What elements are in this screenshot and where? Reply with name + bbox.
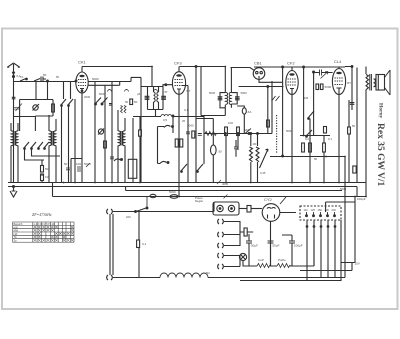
svg-text:RT: RT — [187, 89, 191, 93]
wire IFT1 left rail link — [141, 87, 148, 183]
wire x345 vertical — [344, 157, 346, 278]
wire y190 stub — [126, 187, 342, 191]
svg-text:0,2: 0,2 — [305, 137, 309, 141]
svg-text:50: 50 — [56, 75, 60, 79]
trimmer arrow C12 — [321, 72, 329, 79]
wire drop x95 — [94, 81, 96, 182]
svg-text:100μF: 100μF — [357, 197, 366, 201]
svg-text:Horny: Horny — [378, 103, 384, 119]
tube V1 CK1 — [76, 72, 88, 93]
extra value labels — [20, 75, 356, 275]
wire R6 down — [237, 136, 239, 151]
svg-text:5000: 5000 — [325, 85, 332, 89]
oscillator coil L3 pair — [118, 131, 125, 146]
wire x272 up — [271, 81, 273, 134]
svg-text:100μF: 100μF — [294, 244, 303, 248]
wire selector feed — [326, 202, 355, 212]
wire drop x75 mid — [74, 99, 76, 182]
wire CY2 to connector — [280, 212, 296, 214]
capacitor C17 — [198, 134, 202, 136]
wire tube1 cathode down — [81, 93, 83, 182]
wire x313.6 vertical — [313, 72, 315, 135]
node dots det — [257, 133, 259, 135]
wire grid step line — [131, 77, 141, 86]
mains contact bottom left — [107, 275, 113, 280]
wire 15V link — [300, 263, 352, 282]
shield box oscillator — [128, 159, 137, 178]
wire branch down x36 — [35, 81, 37, 100]
wire drop x70.5 — [70, 81, 72, 99]
wire E1 leads — [212, 119, 214, 183]
wire drop x188 — [182, 86, 188, 183]
switch S11 — [197, 164, 203, 172]
trimmer T1 — [14, 104, 22, 112]
svg-text:240: 240 — [332, 208, 337, 212]
ground symbol — [10, 187, 17, 197]
svg-text:Regler: Regler — [195, 199, 203, 203]
small box E10 — [324, 127, 327, 134]
choke L4 — [160, 273, 208, 278]
node out — [351, 66, 353, 68]
wire x310 vertical — [309, 119, 311, 183]
svg-text:0,1: 0,1 — [328, 137, 332, 141]
svg-text:50: 50 — [134, 100, 138, 104]
svg-text:110: 110 — [304, 208, 309, 212]
wire IFT2 secondary stem — [230, 68, 232, 93]
IF transformer IFT2 right rail — [231, 93, 237, 104]
wire bottom line2 — [240, 280, 341, 282]
svg-text:CL4: CL4 — [334, 59, 342, 64]
resistor R2 — [104, 141, 107, 148]
loudspeaker LS1 — [374, 70, 391, 95]
component oval on bus — [170, 195, 178, 199]
osc zigzag R17 — [121, 106, 127, 113]
wire tube2 anode up — [178, 67, 180, 72]
svg-text:50: 50 — [219, 150, 223, 154]
node dot on bus — [47, 80, 49, 82]
wire top bus drop x152 — [151, 67, 153, 87]
switch S1 on signal bus — [20, 78, 27, 81]
node tube2 grid — [165, 84, 167, 86]
box E6 — [130, 99, 133, 105]
svg-text:CF2: CF2 — [287, 61, 295, 66]
svg-text:100: 100 — [228, 121, 233, 125]
wire top bus segment1 — [82, 66, 152, 68]
tube V5 CL4 — [332, 69, 345, 95]
svg-text:4000: 4000 — [222, 182, 229, 186]
resistor R12 — [247, 206, 251, 213]
switch arrow S18 — [101, 98, 107, 105]
node diode line — [267, 86, 269, 88]
wire top bus segment2 — [179, 66, 224, 68]
wire CB1 left lead — [231, 68, 255, 71]
wire tube5 anode — [338, 67, 340, 69]
variable capacitor VC1 — [33, 104, 40, 111]
svg-text:125: 125 — [311, 208, 316, 212]
svg-text:50μF: 50μF — [273, 244, 280, 248]
switch S7 — [68, 99, 73, 182]
node dots ground bus — [63, 66, 367, 198]
wire x303.6 vertical — [303, 67, 305, 135]
wire E2 — [237, 106, 244, 134]
wave switch S9 — [160, 161, 169, 163]
svg-text:5000: 5000 — [169, 190, 176, 194]
wire x349 vertical — [348, 100, 350, 182]
output transformer primary zigzag — [366, 75, 369, 90]
resistor box E8 — [192, 131, 195, 138]
svg-text:5000: 5000 — [99, 92, 106, 96]
svg-text:5000: 5000 — [241, 91, 248, 95]
wire output transformer top — [345, 67, 366, 75]
wire link coils bottom — [25, 149, 61, 161]
coil L2 pair — [49, 131, 56, 146]
svg-text:5Ω: 5Ω — [206, 271, 210, 275]
svg-text:1W: 1W — [45, 175, 50, 179]
wire IFT2 leads down — [225, 104, 231, 116]
svg-text:15V: 15V — [355, 262, 360, 266]
svg-text:0,1: 0,1 — [184, 108, 188, 112]
svg-text:1 2 3 4 5 6 7 8 9 10: 1 2 3 4 5 6 7 8 9 10 — [34, 223, 55, 226]
wire R5 down — [225, 136, 227, 183]
svg-text:25: 25 — [182, 119, 186, 123]
node CL4 grid line — [313, 71, 315, 73]
wire y118.5 stub — [196, 118, 213, 120]
svg-text:1M: 1M — [304, 96, 309, 100]
svg-text:220: 220 — [126, 215, 131, 219]
svg-text:PuRo: PuRo — [278, 258, 286, 262]
wire tube2 cathode down — [178, 95, 180, 197]
wire x357 stub — [356, 187, 358, 197]
switch at CY2 — [280, 197, 286, 204]
switch S15 — [306, 130, 312, 137]
wire af line y135 — [300, 135, 330, 137]
wire mains line — [113, 211, 214, 213]
resistor R5 — [225, 127, 228, 136]
wire right side vertical — [350, 197, 355, 263]
oval component E1 — [211, 145, 217, 155]
svg-text:1M: 1M — [253, 142, 258, 146]
wire bottom mains line — [113, 277, 160, 279]
wire switch to bus link — [146, 197, 148, 209]
wire link S8 S9 — [158, 127, 165, 164]
svg-text:2M: 2M — [245, 128, 250, 132]
padder circle P1 — [98, 129, 104, 135]
svg-text:5000: 5000 — [84, 162, 91, 166]
svg-text:0,1: 0,1 — [142, 242, 147, 246]
volume pot RZ2 — [256, 147, 268, 168]
wire RZ1 leads — [250, 134, 252, 183]
switch S14 — [308, 111, 314, 119]
wire R13 — [240, 231, 253, 233]
pilot lamp LP1 — [239, 253, 246, 260]
oval on bus E9 — [150, 194, 156, 197]
capacitor C15 elec — [268, 241, 274, 266]
svg-text:5T: 5T — [165, 90, 169, 94]
component box E3 — [353, 166, 356, 173]
wire af line y156 — [270, 156, 345, 158]
switch S10 — [181, 164, 187, 172]
svg-text:RT: RT — [347, 81, 351, 85]
wire tube2 grid lead — [163, 85, 173, 87]
wire resistor to CY2 — [251, 208, 262, 210]
capacitor C9 — [234, 140, 238, 157]
wire branch down x47.5 — [47, 81, 49, 100]
wire coil L3 leads — [118, 110, 125, 182]
wire drop x105 — [104, 86, 106, 183]
svg-text:Rex 35 GW V/1: Rex 35 GW V/1 — [375, 123, 385, 186]
output transformer secondary — [374, 79, 376, 87]
output transformer core — [370, 74, 372, 91]
capacitor C8 — [186, 132, 190, 134]
wire top bus to speaker — [345, 67, 357, 183]
antenna A1 — [7, 63, 20, 78]
svg-text:50: 50 — [125, 100, 129, 104]
switch bank S3 — [31, 142, 36, 149]
svg-text:50: 50 — [45, 167, 49, 171]
tube V2 CF3 — [172, 72, 185, 95]
wire after choke — [208, 277, 345, 279]
wire x140 vertical — [139, 116, 141, 182]
capacitor blob antenna — [12, 97, 16, 99]
small box E5 — [320, 84, 323, 90]
svg-text:CuP: CuP — [258, 258, 264, 262]
wire tube1 cathode branch — [71, 159, 82, 183]
capacitor IFT2 right blob — [235, 97, 240, 100]
switch S12 — [245, 129, 251, 135]
wire coil L2 leads — [49, 115, 56, 182]
wire x267.8 vertical — [267, 87, 269, 134]
wire IFT2 primary stem — [224, 67, 226, 93]
wires from connector pins down — [307, 220, 341, 281]
wire tube1 anode up — [81, 67, 83, 73]
svg-text:0,5: 0,5 — [163, 118, 168, 122]
svg-text:ZA: ZA — [248, 110, 252, 114]
wire CB1 bottom lead — [259, 79, 283, 82]
wire x282.6 vertical — [282, 67, 284, 156]
capacitor blob x352 — [350, 103, 355, 105]
node top x196 — [195, 66, 197, 68]
connector pin dots — [306, 226, 308, 228]
wire fuse to resistor — [239, 208, 247, 210]
capacitor C13 on switch drop — [137, 212, 140, 278]
switch S6 — [61, 99, 66, 182]
resistor zigzag det — [205, 132, 216, 136]
svg-text:5000: 5000 — [209, 91, 216, 95]
hf choke L5 — [161, 114, 172, 116]
wire R15 link — [41, 160, 43, 182]
resistor R16 — [41, 174, 44, 181]
capacitor IFT1 right blob — [161, 96, 166, 99]
mains switch S16 — [135, 207, 148, 212]
svg-text:5000: 5000 — [286, 129, 293, 133]
svg-text:ZF=473kHz: ZF=473kHz — [32, 212, 52, 217]
svg-text:50: 50 — [314, 157, 318, 161]
capacitor C12 — [314, 70, 333, 76]
tube V6 CY2 — [262, 204, 280, 222]
switch bank S4 — [38, 142, 43, 149]
oval component E2 — [242, 108, 246, 114]
wire drop x133 — [132, 118, 134, 182]
capacitor C6 — [110, 157, 114, 159]
wire up from choke end — [213, 202, 215, 212]
contact pair A — [108, 90, 112, 92]
capacitor IFT2 left blob — [218, 97, 223, 100]
svg-text:TA: TA — [20, 75, 24, 79]
wire grid bus right of tube1 — [88, 81, 131, 83]
wire drop x196 — [195, 67, 197, 183]
switch bank S2 — [24, 142, 29, 149]
capacitor C14 elec — [246, 234, 252, 266]
wire drop x63.5 — [63, 81, 65, 99]
svg-text:CF3: CF3 — [174, 61, 182, 66]
resistor R6 — [237, 127, 240, 136]
node bus x303.6 — [303, 66, 305, 68]
svg-text:50: 50 — [352, 124, 356, 128]
wire IFT1 bottom stem — [155, 110, 157, 117]
wire RZ2 leads — [257, 134, 259, 183]
wire tube3 anode — [291, 67, 293, 71]
resistor R8 — [302, 143, 305, 152]
svg-text:µ5: µ5 — [137, 92, 141, 96]
wire y116 left stub — [14, 116, 36, 118]
capacitor blob C5 — [109, 104, 112, 106]
wire antenna down — [13, 77, 15, 183]
wire tube3 cathode — [291, 95, 293, 183]
connector strip dashed box — [300, 206, 341, 220]
wire drop x112 — [111, 81, 113, 182]
node CB1 bus junction — [282, 66, 284, 68]
svg-text:150: 150 — [318, 208, 323, 212]
svg-text:50: 50 — [64, 162, 68, 166]
components small row y168 — [66, 163, 90, 172]
svg-text:50: 50 — [43, 73, 47, 77]
svg-text:5000: 5000 — [92, 77, 99, 81]
svg-text:2000: 2000 — [84, 95, 91, 99]
node x282.6 af — [282, 155, 284, 157]
wave switch S21 — [114, 159, 122, 161]
svg-text:1000: 1000 — [187, 124, 194, 128]
resistor R9 — [309, 143, 312, 152]
wire tube1 second grid line — [88, 82, 120, 86]
wire mains left vertical pair — [110, 214, 113, 275]
resistor zigzag RZ1 — [250, 147, 253, 162]
wire choke line — [133, 116, 204, 118]
resistor R11 — [348, 127, 351, 134]
resistor R7 — [267, 120, 270, 127]
resistor R3 — [175, 139, 178, 147]
svg-text:100: 100 — [76, 162, 81, 166]
resistor zigzag RZ4 — [277, 258, 290, 268]
ground node dot left — [13, 186, 15, 188]
tube V3 CB1 — [253, 68, 265, 80]
IF transformer IFT1 coils — [154, 87, 159, 110]
wire diode line y86.5 — [239, 86, 283, 88]
wire tube5 cathode down — [338, 95, 340, 183]
IF transformer IFT1 frame — [148, 87, 164, 110]
contact pair C — [154, 90, 158, 92]
switch arrow S17 — [95, 98, 101, 105]
band filter box — [20, 100, 53, 132]
mains contact top left — [107, 209, 113, 214]
wire drop x204 — [203, 115, 205, 164]
svg-text:Sp: Sp — [14, 239, 18, 243]
IF transformer IFT2 coils — [225, 92, 231, 104]
wire R14 stub — [247, 232, 292, 235]
antenna coil L1 pair — [11, 131, 18, 146]
capacitor C1 — [34, 77, 46, 82]
wire CB1 bus over — [254, 66, 345, 68]
wire heater chain links — [224, 222, 240, 267]
resistor R15 — [41, 166, 44, 173]
switch bank S5 — [44, 142, 49, 149]
wave switch S8 — [164, 116, 173, 133]
resistor R10 — [323, 143, 326, 152]
connector contacts — [306, 212, 336, 217]
wire det line — [204, 133, 272, 135]
svg-text:5000: 5000 — [340, 187, 347, 191]
svg-text:CK1: CK1 — [78, 60, 87, 65]
wire bottom chain — [243, 240, 314, 266]
contact pair B — [125, 90, 129, 92]
wire avc return — [201, 67, 225, 116]
IF transformer IFT2 left rail — [220, 93, 225, 108]
resistor R13 — [244, 228, 247, 236]
pickup contact arrows — [272, 96, 280, 101]
node choke — [172, 115, 174, 117]
resistor zigzag RZ3 — [257, 258, 270, 268]
wire transformer bottom — [365, 90, 367, 197]
svg-text:0,35: 0,35 — [260, 171, 266, 175]
capacitor IFT1 left blob — [145, 96, 150, 99]
capacitor C16 elec — [289, 235, 295, 266]
node dot tube1 left — [75, 80, 77, 82]
wire coil L1 leads — [11, 123, 18, 182]
tube V4 CF2 — [286, 71, 298, 95]
svg-text:CB1: CB1 — [254, 61, 263, 66]
resistor R1 vertical — [52, 104, 55, 112]
small box E4 — [316, 84, 319, 90]
tick marks bus — [217, 180, 228, 199]
node det line dots — [224, 133, 226, 135]
heater chain contacts — [218, 219, 224, 224]
fuse box F1 — [213, 202, 239, 215]
wire signal bus — [14, 81, 77, 83]
resistor box E7 — [139, 130, 142, 136]
wire second ground bus — [8, 186, 357, 188]
mech dashed link — [276, 115, 278, 154]
wire x324 vertical — [323, 135, 325, 182]
wire x52.5 drop — [52, 182, 54, 197]
svg-text:CY2: CY2 — [264, 197, 273, 202]
wire bottom bus — [53, 196, 367, 198]
svg-text:50μF: 50μF — [251, 244, 258, 248]
wire ground bus — [8, 182, 366, 184]
table grid — [13, 222, 74, 242]
wire CY2 down — [270, 221, 272, 266]
resistor R4 — [180, 139, 183, 147]
